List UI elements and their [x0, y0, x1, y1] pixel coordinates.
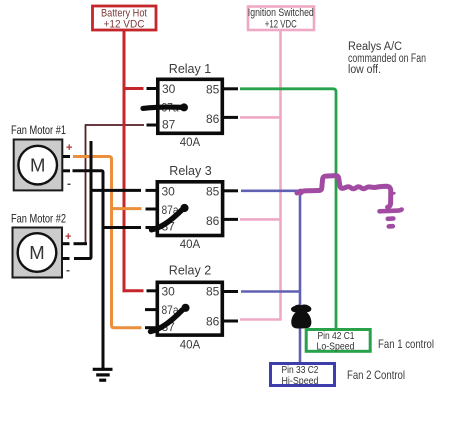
note text realys A/C: [348, 41, 426, 76]
svg-text:40A: 40A: [180, 137, 201, 149]
relay 2 stubs: [145, 291, 238, 328]
svg-text:87: 87: [162, 118, 176, 132]
diode blob on fan2 control line: [291, 304, 311, 328]
wire blue relay3 pin85 to pin33 box: [241, 191, 300, 363]
svg-text:30: 30: [162, 82, 176, 96]
svg-text:Relay 3: Relay 3: [169, 164, 211, 178]
svg-text:Lo-Speed: Lo-Speed: [317, 341, 355, 353]
ground: [93, 369, 113, 380]
relay U1 Relay 1: [158, 62, 223, 149]
relay 3 contact arm: [152, 204, 189, 230]
relay U3 Relay 3: [157, 164, 222, 251]
fan motor 2: [11, 212, 71, 278]
wire blue relay2 pin85 branch: [241, 290, 300, 293]
svg-text:86: 86: [206, 315, 220, 329]
purple highlighter trace to chassis ground: [297, 176, 402, 227]
svg-text:+: +: [65, 231, 71, 243]
wire red branch to relay1 pin30: [124, 87, 144, 90]
svg-text:Ignition Switched: Ignition Switched: [248, 7, 314, 19]
svg-text:Relay 1: Relay 1: [169, 62, 211, 76]
wire green relay1 pin85 to pin42 box: [240, 89, 336, 329]
svg-text:Fan Motor #1: Fan Motor #1: [11, 123, 66, 137]
svg-text:40A: 40A: [180, 239, 201, 251]
wire pink branch to relay3 pin86: [240, 218, 282, 221]
wire pink branch to relay1 pin86: [240, 116, 282, 119]
svg-text:85: 85: [206, 185, 220, 199]
svg-text:Realys A/C: Realys A/C: [348, 41, 402, 53]
pin 42 C1 lo-speed connector box: [306, 330, 370, 353]
ignition switched +12V source box: [248, 7, 314, 31]
svg-text:30: 30: [162, 285, 176, 299]
svg-text:Relay 2: Relay 2: [169, 264, 211, 278]
svg-text:40A: 40A: [180, 340, 201, 352]
pin 33 C2 hi-speed connector box: [271, 364, 335, 387]
svg-text:-: -: [67, 177, 71, 191]
wire black relay3 pin87 to ground line: [103, 226, 141, 229]
wire maroon vertical to fan motor 2 plus: [85, 124, 87, 244]
wire red branch to relay2 pin30: [123, 289, 144, 292]
svg-text:85: 85: [206, 83, 220, 97]
svg-text:86: 86: [206, 112, 220, 126]
svg-text:Fan 1 control: Fan 1 control: [378, 337, 434, 351]
wire black to relay3 pin30: [90, 141, 142, 190]
wire pink bottom elbow to relay2 pin86: [240, 318, 282, 321]
svg-text:Hi-Speed: Hi-Speed: [282, 375, 319, 387]
relay 1 contact arm: [143, 103, 188, 111]
svg-text:-: -: [66, 263, 70, 277]
wire black fan motor1 negative lead: [73, 171, 104, 368]
svg-text:M: M: [30, 155, 45, 176]
svg-text:Fan 2 Control: Fan 2 Control: [347, 368, 405, 382]
svg-text:+12 VDC: +12 VDC: [265, 19, 297, 31]
fan motor 1: [11, 123, 72, 191]
battery hot +12V source box: [93, 6, 157, 31]
wire black junction vertical to fan motor2 negative: [74, 189, 91, 259]
label fan 1 control: [378, 337, 434, 351]
relay U2 Relay 2: [157, 264, 222, 352]
wire red battery main vertical: [123, 29, 126, 292]
svg-text:30: 30: [162, 185, 176, 199]
svg-text:low off.: low off.: [348, 64, 381, 76]
svg-text:M: M: [29, 242, 44, 263]
relay 2 contact arm: [151, 304, 190, 332]
wire orange from fan motor 1 plus: [73, 157, 142, 328]
fan motor 2 terminal stubs: [62, 244, 87, 259]
pink ignition feed wire vertical: [279, 29, 282, 320]
svg-text:+: +: [66, 142, 72, 154]
relay 3 stubs: [146, 190, 239, 227]
wire orange branch to relay3 pin87a: [112, 207, 142, 210]
label fan 2 control: [347, 368, 405, 382]
svg-text:85: 85: [206, 285, 220, 299]
svg-text:Fan Motor #2: Fan Motor #2: [11, 212, 66, 226]
wire maroon relay1 pin87 horizontal: [86, 124, 145, 126]
svg-text:+12 VDC: +12 VDC: [104, 19, 145, 31]
svg-text:86: 86: [206, 214, 220, 228]
relay 1 stubs: [147, 89, 239, 126]
fan motor 1 terminal stubs: [63, 157, 70, 171]
